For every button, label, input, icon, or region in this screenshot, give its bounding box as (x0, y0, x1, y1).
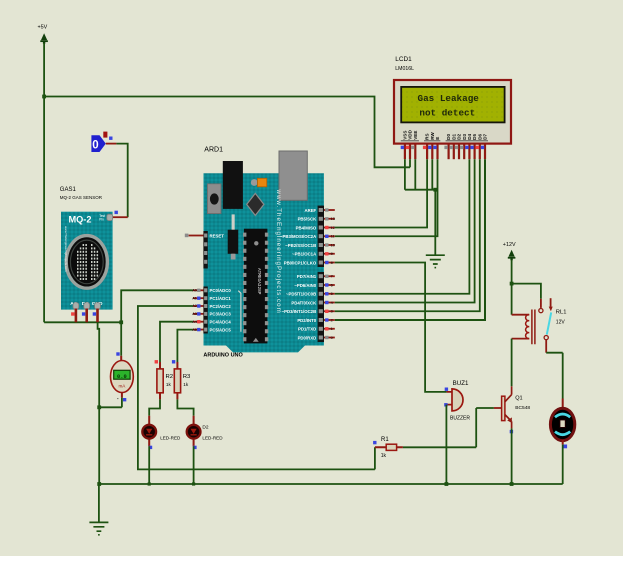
svg-text:LED-RED: LED-RED (202, 436, 223, 441)
LCD LM016L display (394, 80, 511, 144)
svg-text:not detect: not detect (419, 107, 475, 118)
wire LCD RS to Arduino pin 12 (335, 159, 427, 227)
svg-text:1k: 1k (381, 453, 387, 459)
wire Q1 emitter to ground rail (510, 428, 514, 486)
ground symbol at LCD (426, 255, 445, 268)
buzzer BUZ1 (444, 380, 470, 421)
svg-text:E: E (435, 137, 440, 140)
wire buzzer to ground rail (562, 445, 564, 484)
ammeter probe (111, 352, 134, 402)
svg-text:12V: 12V (556, 320, 566, 326)
LCD1 labels (395, 56, 414, 72)
buzzer (sounder) in relay circuit (550, 399, 574, 449)
svg-text:PC4/ADC4: PC4/ADC4 (210, 320, 232, 325)
svg-text:PC5/ADC5: PC5/ADC5 (210, 327, 232, 332)
wire LCD D4 to Arduino pin 5 (335, 159, 470, 294)
svg-text:BC548: BC548 (515, 405, 530, 411)
svg-text:PB4/MISO: PB4/MISO (296, 225, 317, 230)
svg-text:5: 5 (331, 292, 333, 296)
svg-text:A3: A3 (192, 312, 197, 316)
svg-text:VEE: VEE (413, 131, 418, 140)
resistor R3 (172, 360, 191, 399)
svg-text:+5V: +5V (38, 25, 48, 31)
svg-text:~PB2/SS/OC1B: ~PB2/SS/OC1B (285, 243, 316, 248)
resistor R2 (155, 360, 173, 399)
svg-text:BUZZER: BUZZER (450, 415, 470, 421)
svg-text:~PB1/OC1A: ~PB1/OC1A (292, 252, 316, 257)
ground symbol bottom-left (89, 484, 108, 536)
gas sensor bottom pins (71, 309, 97, 323)
wire Arduino A4 to R2 (160, 322, 193, 363)
wire LCD D6 to Arduino pin 3 (335, 159, 480, 311)
wire A0 net: sensor node to meter and Arduino A0 (121, 290, 193, 356)
svg-text:BUZ1: BUZ1 (453, 380, 469, 387)
svg-text:Pin: Pin (99, 218, 104, 222)
Arduino name text (203, 353, 243, 359)
svg-text:1k: 1k (166, 382, 172, 387)
power +12V (503, 242, 516, 260)
svg-text:1: 1 (331, 327, 333, 331)
svg-text:www.TheEngineeringProjects.com: www.TheEngineeringProjects.com (64, 226, 68, 272)
svg-text:8: 8 (331, 261, 333, 265)
wire +12V branch to relay common (512, 284, 541, 308)
wire Arduino A5 to R3 (177, 330, 193, 363)
svg-text:0: 0 (331, 336, 333, 340)
svg-text:PD1/TXD: PD1/TXD (298, 327, 316, 332)
LED D2 (187, 416, 224, 449)
svg-text:LCD1: LCD1 (395, 56, 412, 63)
svg-text:3: 3 (331, 310, 333, 314)
logicstate 0 (test input) (91, 132, 112, 152)
svg-text:Gas Leakage: Gas Leakage (418, 93, 480, 104)
svg-text:PC0/ADC0: PC0/ADC0 (210, 288, 232, 293)
Arduino right header pins lower (324, 275, 335, 340)
svg-text:mA: mA (118, 384, 126, 389)
svg-text:R2: R2 (166, 374, 174, 380)
svg-text:A1: A1 (192, 296, 197, 300)
svg-text:A4: A4 (192, 320, 197, 324)
svg-text:6: 6 (331, 283, 333, 287)
svg-text:AREF: AREF (304, 208, 316, 213)
svg-text:D7: D7 (483, 133, 488, 139)
svg-text:RESET: RESET (210, 234, 225, 239)
svg-text:9: 9 (331, 252, 333, 256)
Arduino ARD1 label (204, 147, 223, 154)
wire LCD D7 to Arduino pin 2 (335, 159, 485, 320)
transistor Q1 BC548 (494, 386, 531, 433)
ground rail bottom (97, 482, 562, 486)
svg-text:D2: D2 (202, 425, 208, 431)
svg-text:1k: 1k (183, 382, 189, 387)
svg-text:LED-RED: LED-RED (160, 436, 181, 441)
svg-text:PC3/ADC3: PC3/ADC3 (210, 312, 232, 317)
svg-text:Q1: Q1 (515, 395, 522, 401)
Arduino Uno board ARD1 (203, 151, 324, 352)
LCD pins (401, 144, 485, 160)
svg-text:PD0/RXD: PD0/RXD (298, 335, 317, 340)
wire LCD VSS VEE RW to ground (405, 159, 437, 254)
svg-text:7: 7 (331, 275, 333, 279)
svg-text:PD4/T0/XCK: PD4/T0/XCK (291, 300, 317, 305)
wire buzzer BUZ1 to ground rail (445, 405, 449, 486)
svg-text:ARDUINO UNO: ARDUINO UNO (203, 353, 243, 359)
wire +5V vertical rail (43, 43, 45, 322)
svg-text:+12V: +12V (503, 242, 516, 248)
svg-text:ATMEGA328P: ATMEGA328P (256, 268, 261, 295)
wire meter bottom to ground line (99, 398, 122, 408)
svg-text:PB0/ICP1/CLKO: PB0/ICP1/CLKO (284, 260, 317, 265)
svg-text:R1: R1 (381, 437, 389, 443)
svg-text:GAS1: GAS1 (60, 187, 77, 193)
svg-text:~PD6/AIN0: ~PD6/AIN0 (294, 283, 316, 288)
wire Arduino pin 8 to buzzer BUZ1 (335, 263, 447, 392)
wire +12V to relay coil (510, 260, 514, 315)
LED D1 (142, 416, 181, 449)
wire R2 to LED D1 (149, 399, 160, 415)
wire logicstate to sensor test pin (106, 144, 128, 218)
svg-text:~PD5/T1/OC0B: ~PD5/T1/OC0B (286, 292, 316, 297)
wire +5V horizontal rail to LCD VDD (42, 95, 410, 168)
svg-text:LM016L: LM016L (395, 66, 414, 72)
wire LCD VDD stub (409, 159, 411, 167)
Arduino reset pin stub (185, 234, 204, 238)
wire LCD D5 to Arduino pin 4 (335, 159, 475, 302)
resistor R1 (373, 437, 403, 459)
wire sensor supply/output line (44, 320, 123, 324)
svg-text:MQ-2: MQ-2 (69, 214, 92, 224)
wire LCD E to Arduino pin 11 (335, 159, 438, 236)
svg-text:A5: A5 (192, 328, 197, 332)
svg-text:VDD: VDD (408, 129, 413, 139)
wire R1 to transistor base (403, 408, 494, 447)
svg-text:13: 13 (331, 217, 335, 221)
svg-text:PD2/INT0: PD2/INT0 (297, 318, 316, 323)
svg-text:2: 2 (331, 318, 333, 322)
svg-text:PB5/SCK: PB5/SCK (298, 217, 318, 222)
gas sensor GAS1 MQ-2 board (61, 212, 113, 310)
svg-text:12: 12 (331, 226, 335, 230)
wire relay coil to Q1 collector (511, 339, 513, 387)
relay RL1 (512, 298, 567, 344)
svg-text:10: 10 (331, 243, 335, 247)
wire relay switch to buzzer2 (546, 340, 563, 399)
svg-text:ARD1: ARD1 (204, 147, 223, 154)
svg-text:RL1: RL1 (556, 310, 567, 316)
svg-text:0: 0 (92, 140, 98, 152)
svg-text:0.0: 0.0 (117, 374, 127, 380)
wire LED D2 to ground rail (192, 446, 195, 485)
wire LED D1 to ground rail (148, 446, 151, 485)
gas sensor GAS1 labels (60, 187, 103, 200)
Arduino right header pins upper (324, 208, 335, 265)
svg-text:A2: A2 (192, 304, 197, 308)
power +5V top-left (38, 25, 48, 44)
svg-text:PD7/AIN1: PD7/AIN1 (297, 274, 317, 279)
svg-text:www.TheEngineeringProjects.com: www.TheEngineeringProjects.com (275, 189, 282, 314)
svg-text:-: - (117, 397, 119, 403)
svg-text:A0: A0 (192, 289, 197, 293)
svg-text:MQ-2 GAS SENSOR: MQ-2 GAS SENSOR (60, 195, 103, 200)
svg-text:R3: R3 (183, 374, 191, 380)
svg-text:PC2/ADC2: PC2/ADC2 (210, 304, 232, 309)
svg-text:PC1/ADC1: PC1/ADC1 (210, 296, 232, 301)
wire R3 to LED D2 (177, 399, 193, 415)
svg-text:11: 11 (331, 235, 335, 239)
svg-text:4: 4 (331, 301, 333, 305)
wire Arduino A2 to R1 (138, 306, 375, 469)
Arduino left analog pins (192, 289, 203, 332)
svg-text:~PB3/MOSI/OC2A: ~PB3/MOSI/OC2A (280, 234, 316, 239)
wire sensor line down to ground rail (97, 322, 101, 484)
svg-text:~PD3/INT1/OC2B: ~PD3/INT1/OC2B (282, 309, 317, 314)
